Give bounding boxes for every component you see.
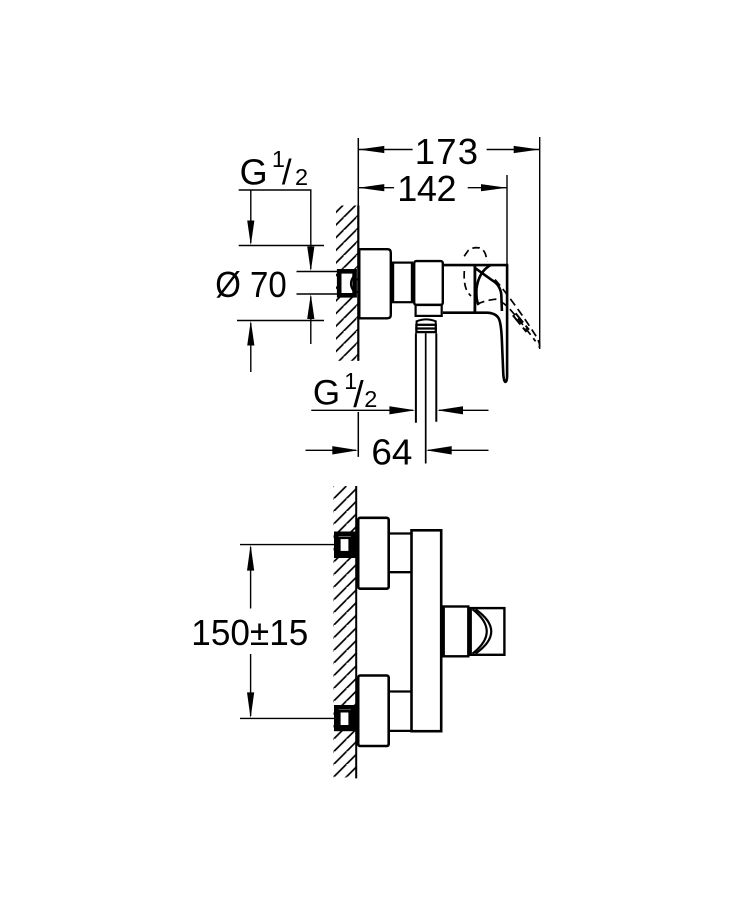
wall face line (top view) / left extension line for 173,142,64	[357, 138, 359, 361]
svg-text:G: G	[240, 152, 268, 193]
G1/2 leader arrow down (right, to pipe top)	[310, 190, 312, 269]
Ø70 extension line bottom	[237, 320, 324, 322]
lever underside edge	[476, 268, 502, 311]
dashed lever lower edge (raised position)	[477, 299, 536, 341]
shower outlet nut bands	[416, 325, 435, 332]
outlet boss under valve	[416, 305, 442, 316]
top neck lines	[389, 532, 412, 534]
G1/2 pipe arrow up (bottom right)	[310, 297, 312, 345]
top escutcheon (front view)	[358, 518, 389, 589]
bottom union nut (front view)	[336, 707, 353, 729]
svg-text:G: G	[313, 374, 340, 413]
svg-text:142: 142	[397, 168, 456, 209]
shower outlet nut curved top	[417, 319, 436, 324]
label G 1/2 (upper inlet)	[240, 146, 308, 193]
hose line left	[415, 333, 417, 423]
label G 1/2 (lower outlet)	[313, 368, 377, 415]
union inner arc	[351, 277, 353, 291]
G1/2 lower leader line + right arrow	[311, 409, 413, 411]
dimension 142 extension line (right)	[506, 175, 508, 265]
dashed lever inner heavy edge	[513, 315, 527, 332]
top union nut inner square	[339, 538, 349, 552]
dimension 173 extension line (right)	[539, 137, 541, 349]
neck between flange and valve	[393, 263, 412, 303]
dimension 173 line + arrows	[358, 149, 412, 151]
dashed lever knob (raised position)	[464, 248, 487, 262]
dimension 150±15 extension lines	[240, 544, 334, 546]
dimension 64 line left + arrow	[306, 449, 357, 451]
dashed dome back arc (raised position)	[464, 271, 471, 296]
lever blade (down position)	[488, 265, 508, 382]
dimension 142 line + arrows	[358, 187, 394, 189]
G1/2 underline leader	[239, 189, 312, 191]
top union nut (front view)	[336, 534, 353, 556]
cartridge housing bottom edge	[443, 311, 488, 314]
dimension 64 line right + arrow	[428, 449, 489, 451]
mixer body (front view)	[412, 530, 442, 731]
handle knob (front view)	[471, 608, 505, 655]
G1/2 leader arrow down (left, to escutcheon top ext line)	[250, 190, 252, 243]
Ø70 arrow up (bottom left)	[250, 323, 252, 372]
hose line right	[435, 333, 437, 422]
bottom union nut inner square	[339, 711, 349, 726]
cartridge housing top edge	[443, 264, 509, 267]
G1/2 lower right leader + left arrow	[439, 409, 489, 411]
dashed lever upper edge (raised position)	[495, 280, 540, 349]
svg-text:/: /	[282, 153, 292, 192]
bottom escutcheon (front view)	[358, 676, 389, 747]
escutcheon flange (top view)	[359, 249, 391, 318]
Ø70 extension line top	[239, 245, 324, 247]
dome arc (lever pivot)	[476, 265, 491, 305]
svg-text:64: 64	[371, 432, 412, 473]
wall union nut (top view, square)	[339, 271, 354, 295]
wall face line (front view)	[355, 486, 357, 778]
wall hatch (front view)	[334, 486, 357, 778]
bottom neck lines	[389, 690, 412, 692]
svg-text:2: 2	[295, 164, 308, 190]
valve body (top view)	[414, 261, 443, 305]
dimension 150±15 line + arrows	[250, 547, 252, 609]
outlet spout (front view)	[444, 607, 469, 657]
svg-text:Ø 70: Ø 70	[215, 264, 287, 305]
svg-text:150±15: 150±15	[191, 612, 308, 653]
svg-text:/: /	[353, 373, 364, 415]
knob face arcs	[476, 609, 492, 653]
hose centre line / extension for 64	[425, 333, 427, 463]
supply pipe stub lines (to wall union)	[297, 271, 339, 273]
svg-text:173: 173	[415, 131, 478, 172]
wall hatch (top view)	[336, 206, 358, 361]
svg-text:2: 2	[364, 386, 377, 412]
handle cap boundary	[473, 265, 476, 313]
